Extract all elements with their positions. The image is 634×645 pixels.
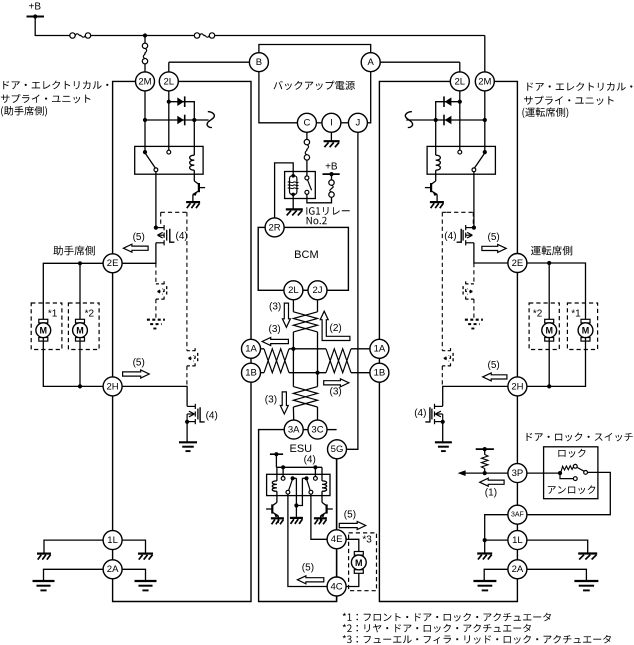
ESU relay contact NC right (314, 477, 318, 481)
junction lower diode/coil (left) (192, 118, 196, 122)
svg-text:(3): (3) (330, 386, 342, 397)
svg-text:*2: *2 (85, 308, 95, 319)
wire 2H to MOSFET Q4 (right) (443, 386, 508, 406)
ground 1L right exterior (578, 552, 597, 554)
svg-text:I: I (330, 118, 333, 129)
connector 2E (right) (508, 254, 527, 273)
junction feed/NC-left (281, 465, 285, 469)
door lock switch title (527, 433, 633, 442)
ground relay transistor (right) (430, 201, 444, 203)
svg-text:2L: 2L (288, 285, 299, 296)
svg-text:2H: 2H (107, 381, 119, 392)
squiggle wire end (left) (207, 112, 214, 128)
front door lock actuator box (*1 left) (31, 303, 62, 350)
gate lead Q3 (457, 229, 462, 242)
svg-text:1A: 1A (245, 344, 257, 355)
wire left vertical (2L net) (292, 332, 294, 387)
wire 1B row middle (289, 372, 326, 374)
connector 2M (left) (136, 72, 155, 91)
ground 3AF/1L interior (477, 552, 492, 554)
connector 2L (left) (159, 72, 178, 91)
fuel filler lid actuator box (*3) (349, 533, 377, 591)
door electrical supply unit (driver side) box (379, 81, 517, 601)
wire A to 2L(right) (380, 61, 460, 63)
wire 2L(right) down (459, 91, 461, 152)
svg-text:1L: 1L (512, 535, 523, 546)
BCM box (258, 227, 348, 290)
wire 2R to IG1 coil (275, 163, 294, 218)
wire lower diode (right) (406, 119, 485, 121)
relay blade (right) (475, 154, 485, 168)
+B supply symbol (27, 16, 45, 18)
wire 2J down (317, 300, 319, 312)
wire MOSFET to 2E (right) (474, 243, 508, 263)
wire 2L down (292, 300, 294, 312)
connector I (322, 113, 341, 132)
transistor ESU right (321, 496, 323, 503)
transistor ESU left (276, 496, 278, 503)
wire 3P left with arrowhead (465, 472, 508, 474)
dashed line left (right unit) (441, 212, 443, 342)
svg-text:5G: 5G (331, 444, 344, 455)
junction feed/NC-right (313, 465, 317, 469)
ground relay transistor (left) (186, 201, 200, 203)
svg-text:(3): (3) (269, 301, 281, 312)
wire 1L(right) to interior ground (485, 539, 509, 541)
junction 2L/upper diode (left) (167, 100, 171, 104)
junction 2M/lower diode (left) (143, 118, 147, 122)
wire IG1 coil to ground (292, 195, 294, 209)
door electrical supply unit (passenger side) box (113, 81, 251, 601)
junction 2E motor (left) (78, 261, 82, 265)
connector C (297, 113, 316, 132)
wire to 3A (292, 407, 294, 420)
junction 2E motor (right) (547, 261, 551, 265)
svg-text:1B: 1B (374, 368, 386, 379)
svg-text:(5): (5) (344, 510, 356, 521)
switch resistor (560, 466, 574, 473)
connector 3C (308, 420, 327, 439)
switch contact unlock (573, 477, 577, 481)
wire to 3C (317, 407, 319, 420)
svg-text:B: B (256, 57, 262, 68)
relay coil (left) (190, 155, 195, 170)
wire ESU right output to 4E (311, 494, 327, 539)
wire lower diode to coil (right) (435, 120, 437, 155)
junction lower diode/coil (right) (434, 118, 438, 122)
junction 2L/1A (291, 347, 295, 351)
wire ESU commons to ground (295, 478, 297, 517)
junction 2H motor (right) (547, 384, 551, 388)
driver side label (531, 246, 572, 256)
connector 1L (right) (508, 531, 527, 550)
wire 2L(left) to B (169, 61, 250, 63)
ESU box (259, 430, 337, 602)
relay common (left) (143, 150, 147, 154)
svg-text:M: M (40, 326, 48, 336)
wire J to 5G (347, 132, 358, 449)
diode D3 (right upper) (443, 96, 445, 107)
arrow (1) left (480, 478, 504, 486)
svg-text:(5): (5) (488, 232, 500, 243)
connector 1B (left) (242, 363, 261, 382)
wire 2L(left) down (168, 91, 170, 152)
fuse F3 (vertical to 2M) (144, 36, 146, 44)
passenger side label (53, 246, 94, 256)
ground Q2 (left) (179, 441, 197, 443)
wire upper diode (left) (169, 102, 195, 120)
junction 3P/resistor (483, 471, 487, 475)
fuse F4 below C (306, 132, 308, 139)
front door lock actuator box (*1 right) (567, 303, 597, 350)
connector 1A (right) (370, 339, 389, 358)
svg-text:(3): (3) (265, 395, 277, 406)
MOSFET Q4 (right, unlock) (434, 404, 436, 409)
arrow (5) right (4E) (339, 522, 365, 530)
connector 2A (left) (103, 560, 122, 579)
IG1 relay coil (290, 176, 297, 195)
connector 3AF (508, 505, 527, 524)
svg-text:4C: 4C (331, 581, 343, 592)
wire 1A row middle (289, 348, 326, 350)
ground below I (330, 132, 332, 140)
svg-text:*1: *1 (48, 308, 58, 319)
twisted pair lower (293, 387, 317, 407)
wire 1A(left) stub (261, 348, 265, 350)
switch blade (577, 468, 584, 472)
relay box (right unit) (427, 146, 495, 174)
connector 2M (right) (475, 72, 494, 91)
dashed MOSFET (right,side) (450, 348, 452, 353)
wire 2H to MOSFET Q2 (left) (122, 386, 187, 406)
arrow (3) down upper (282, 303, 290, 327)
relay box (left unit) (135, 146, 203, 174)
wire B down to C (259, 72, 298, 123)
wire +B rail (35, 17, 70, 36)
ESU relay common right (304, 476, 308, 480)
diode D1 (left upper) (184, 96, 186, 107)
junction 2J/1B (315, 371, 319, 375)
ESU feed bar (270, 453, 283, 455)
connector 2J (BCM) (308, 281, 327, 300)
svg-text:(4): (4) (304, 454, 316, 465)
ground 1L left-left (37, 552, 51, 554)
fuse F2 (194, 33, 199, 38)
ESU relay blade left (289, 480, 293, 490)
squiggle wire end (right) (405, 112, 412, 128)
unlock label (548, 485, 596, 494)
svg-text:1A: 1A (374, 344, 386, 355)
connector 2A (right) (508, 560, 527, 579)
dashed ground (right) (465, 319, 483, 321)
motor M1 (left) (39, 319, 48, 323)
wire ESU feed (275, 454, 277, 467)
rear door lock actuator box (*2 left) (68, 303, 99, 350)
ESU relay common left (291, 476, 295, 480)
wire 2A(left) grounds (44, 569, 104, 580)
wire 1B(left) stub (261, 372, 265, 374)
IG1 relay box (285, 172, 316, 199)
arrow (5) right (2E right) (482, 244, 506, 252)
MOSFET Q3 (right, lock) (465, 225, 467, 230)
svg-text:(5): (5) (133, 232, 145, 243)
connector J (348, 113, 367, 132)
twisted pair left (264, 349, 289, 373)
diode D4 (right lower) (443, 115, 445, 126)
connector 4E (327, 530, 346, 549)
gate lead Q2 (200, 407, 205, 422)
connector A (361, 53, 380, 72)
svg-text:M: M (545, 326, 553, 336)
ground 2A right exterior (574, 580, 598, 582)
svg-text:2E: 2E (107, 258, 119, 269)
svg-text:BCM: BCM (294, 249, 318, 261)
wire drop to NC left (282, 467, 284, 476)
arrow (2) up (320, 311, 350, 340)
dashed below 2E (left) (155, 263, 157, 284)
dashed MOSFET (left,unlock-side) (194, 348, 196, 353)
connector 5G (328, 440, 347, 459)
motor M5 (right) (581, 319, 590, 323)
ESU relay blade right (307, 480, 310, 490)
svg-text:3C: 3C (311, 424, 323, 435)
IG1 relay switch (306, 175, 308, 177)
fuse F5 (+B to IG1) (329, 180, 334, 185)
wire 2A(right) exterior (527, 569, 587, 580)
motor M2 (left) (76, 319, 85, 323)
junction 1L/3AF (483, 538, 487, 542)
junction MOSFET drain (left) (154, 226, 158, 230)
wire ESU left output to 4C (288, 494, 327, 586)
wire lower diode to coil (left) (193, 120, 195, 155)
dashed MOSFET below 2E (right) (465, 281, 467, 286)
connector 2R (265, 218, 284, 237)
wire motors to 2H (right) (527, 338, 586, 387)
connector 2E (left) (103, 254, 122, 273)
arrow (3) left (262, 338, 288, 346)
relay blade (left) (146, 154, 156, 168)
svg-text:4E: 4E (331, 534, 343, 545)
wire 2M(left) down (144, 91, 146, 152)
svg-text:(1): (1) (485, 487, 497, 498)
svg-text:(5): (5) (488, 360, 500, 371)
switch common (558, 471, 562, 475)
dashed ground (left) (147, 319, 165, 321)
twisted pair upper (293, 312, 317, 332)
ESU relay box (267, 474, 330, 495)
svg-text:2A: 2A (107, 564, 119, 575)
rear door lock actuator box (*2 right) (529, 303, 559, 350)
svg-text:*1: *1 (571, 308, 581, 319)
ground Q4 (right) (435, 441, 452, 443)
ground 2A left-right (135, 580, 157, 582)
wire 2A(right) interior (484, 569, 508, 580)
connector 2H (right) (508, 377, 527, 396)
svg-text:3A: 3A (288, 424, 300, 435)
wire Q2 to ground (186, 422, 188, 442)
svg-text:2L: 2L (455, 76, 466, 87)
dashed wire to dashed ground (left) (155, 299, 157, 319)
wire 1A row to right (351, 348, 370, 350)
svg-text:2J: 2J (312, 285, 322, 296)
wire 1L(left) grounds (44, 540, 103, 553)
wire MOSFET to 2E (left) (122, 243, 156, 263)
wire motor M3 to 4C (346, 573, 359, 586)
arrow (3) down lower (280, 392, 288, 414)
transistor relay (right) (435, 174, 437, 181)
svg-text:(4): (4) (444, 231, 456, 242)
wire 1B row to right (351, 372, 370, 374)
motor M3 (354, 552, 363, 556)
wire switch to 3AF (527, 472, 610, 514)
IG1 relay label (306, 207, 349, 215)
wire IG1 switch to +B fuse (307, 194, 332, 203)
switch contact lock (573, 464, 577, 468)
left unit label (3, 81, 108, 90)
wire relay output down (right) (473, 172, 475, 228)
wire 3P to switch (527, 472, 558, 474)
wire 1L(right) exterior (527, 540, 588, 553)
arrow (5) left (4C) (297, 576, 323, 584)
svg-text:(2): (2) (330, 323, 342, 334)
wire 2E to motors (left) (43, 263, 103, 322)
wire drop to right coil (321, 467, 323, 481)
connector 3A (284, 420, 303, 439)
svg-text:1L: 1L (107, 535, 118, 546)
wire Q4 to ground (442, 422, 444, 442)
backup power label (274, 81, 355, 90)
svg-text:M: M (355, 558, 363, 568)
junction MOSFET drain (right) (472, 226, 476, 230)
svg-text:+B: +B (29, 2, 42, 13)
svg-text:(4): (4) (414, 408, 426, 419)
wire drop to left coil (276, 467, 278, 481)
wire 4E to motor M3 (346, 539, 359, 552)
fuse F1 (70, 33, 75, 38)
svg-text:J: J (356, 118, 361, 129)
svg-text:(5): (5) (302, 562, 314, 573)
wire 2E to motors (right) (527, 263, 586, 323)
right unit label (527, 82, 632, 91)
svg-text:*3: *3 (362, 535, 372, 546)
ground 2A right interior (473, 580, 496, 582)
wire right vertical (2J net) (317, 332, 319, 387)
svg-text:2E: 2E (512, 258, 524, 269)
gate lead Q1 (170, 229, 175, 242)
ESU relay contact NC left (281, 477, 285, 481)
svg-text:3P: 3P (512, 468, 524, 479)
ground ESU right transistor (314, 517, 327, 519)
junction 2L/upper diode (right) (458, 100, 462, 104)
connector 1A (left) (242, 339, 261, 358)
junction MOSFET Q2 source (185, 420, 189, 424)
dashed MOSFET below 2E (left) (163, 281, 165, 286)
+B bar (IG1) (323, 173, 340, 175)
svg-text:ESU: ESU (289, 443, 312, 455)
svg-text:*2: *2 (533, 308, 543, 319)
svg-text:2A: 2A (512, 564, 524, 575)
wire A down to J (367, 72, 370, 123)
arrow (5) right (2H left) (123, 370, 150, 378)
ESU relay coil left (272, 481, 277, 491)
svg-text:(4): (4) (176, 231, 188, 242)
relay common (right) (483, 150, 487, 154)
ground 2A left-left (33, 580, 55, 582)
gate lead Q4 (425, 407, 430, 422)
door lock switch box (544, 447, 598, 499)
wire 3AF to ground (485, 515, 509, 553)
relay coil (right) (436, 155, 441, 170)
svg-text:2M: 2M (478, 76, 491, 87)
twisted pair right (326, 349, 351, 373)
wire lower diode (left) (145, 119, 209, 121)
junction MOSFET Q4 source (441, 420, 445, 424)
wire motors to 2H (left) (43, 338, 103, 387)
dashed below 2E (right) (473, 263, 475, 284)
svg-text:2L: 2L (164, 76, 175, 87)
relay contact NC (left) (167, 150, 171, 154)
svg-text:(4): (4) (206, 410, 218, 421)
ESU relay coil right (322, 481, 327, 491)
wire upper diode (right) (436, 102, 460, 120)
svg-text:C: C (303, 118, 310, 129)
lock label (558, 449, 585, 458)
svg-text:1B: 1B (245, 368, 257, 379)
wire drop to NC right (314, 467, 316, 476)
svg-text:A: A (368, 57, 375, 68)
junction 2H motor (left) (78, 384, 82, 388)
svg-text:(5): (5) (133, 357, 145, 368)
note *3 (343, 635, 611, 644)
dashed box top (right) (447, 211, 473, 213)
dashed box top (left) (161, 211, 187, 213)
wire +B bar to fuse (331, 174, 333, 180)
connector 2L (BCM) (284, 281, 303, 300)
svg-text:M: M (76, 326, 84, 336)
svg-text:2R: 2R (269, 222, 281, 233)
motor M4 (right) (545, 319, 554, 323)
connector 1B (right) (370, 363, 389, 382)
wire 2M(right) down (484, 91, 486, 152)
switch lower throw (560, 473, 573, 479)
relay contact NC (right) (458, 150, 462, 154)
note *1 (343, 613, 551, 622)
ground ESU left transistor (271, 517, 284, 519)
3P pull-up bar (476, 448, 494, 450)
arrow (5) left (2H right) (483, 373, 507, 381)
wire C-I-J link (316, 122, 322, 124)
ground IG1 coil (286, 208, 303, 210)
svg-text:+B: +B (325, 161, 338, 172)
svg-text:(3): (3) (269, 324, 281, 335)
wire B-A top link (259, 45, 371, 53)
transistor relay (left) (193, 174, 195, 181)
ground 1L left-right (138, 552, 153, 554)
svg-text:3AF: 3AF (511, 511, 524, 518)
arrow (5) left (2E left) (123, 244, 148, 252)
dashed line right (left unit) (186, 212, 188, 342)
connector 4C (327, 577, 346, 596)
svg-text:2M: 2M (138, 76, 151, 87)
connector 2L (right) (450, 72, 469, 91)
connector 2H (left) (103, 377, 122, 396)
resistor R1 (484, 449, 486, 454)
arrow (3) right (324, 379, 349, 387)
wire relay output down (left) (155, 172, 157, 228)
junction 2M/lower diode (right) (483, 118, 487, 122)
connector 3P (508, 464, 527, 483)
dashed wire to dashed ground (right) (473, 299, 475, 319)
